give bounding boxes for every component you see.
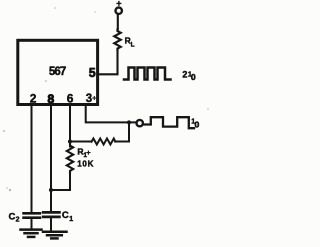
svg-text:6: 6 <box>67 91 74 105</box>
node B junction <box>127 120 131 124</box>
label C1 <box>62 210 73 223</box>
resistor R2 (horizontal, unlabeled) <box>91 139 115 145</box>
wire pin3 to output node <box>86 105 137 122</box>
svg-text:567: 567 <box>49 66 66 78</box>
svg-text:0: 0 <box>191 72 196 82</box>
label f0 <box>191 118 199 129</box>
V+ supply terminal <box>116 8 122 14</box>
svg-text:C: C <box>62 210 69 221</box>
resistor R1 <box>67 142 73 174</box>
svg-text:1: 1 <box>69 216 73 223</box>
wire RL to supply terminal <box>117 14 119 30</box>
ground (C2) <box>21 230 42 237</box>
wire R2 to pin6 node <box>70 141 92 143</box>
svg-text:5: 5 <box>89 66 96 80</box>
wire pin8 to C1 <box>50 105 52 212</box>
capacitor C1 <box>43 212 59 230</box>
svg-text:2: 2 <box>182 69 187 79</box>
output terminal circle <box>137 120 143 126</box>
label R1 <box>77 146 90 159</box>
label C2 <box>9 211 20 223</box>
IC U1 567 tone decoder <box>18 40 98 104</box>
wire R1 bottom to C1 node <box>51 174 70 191</box>
speck after pin 3 <box>93 97 96 100</box>
svg-text:1: 1 <box>83 152 87 159</box>
paper speck <box>9 189 11 191</box>
ground (C1) <box>43 232 67 239</box>
wire pin5 to RL node <box>98 50 118 74</box>
svg-text:8: 8 <box>48 92 55 106</box>
svg-text:10K: 10K <box>77 159 94 168</box>
node junction on pin6 wire <box>68 139 72 143</box>
wire pin6 down <box>69 105 71 147</box>
label 2f0 <box>182 69 196 82</box>
capacitor C2 <box>24 213 40 229</box>
wire pin2 to C2 <box>31 105 33 213</box>
waveform f0 output <box>144 117 194 128</box>
svg-text:L: L <box>131 41 135 48</box>
wire node B down to R2 <box>115 122 129 141</box>
svg-text:C: C <box>9 211 16 222</box>
label RL <box>125 35 135 48</box>
svg-text:0: 0 <box>195 119 200 129</box>
waveform 2f0 output <box>124 68 171 80</box>
svg-text:2: 2 <box>30 91 37 105</box>
resistor RL <box>114 29 120 49</box>
svg-text:2: 2 <box>16 217 20 224</box>
svg-text:3: 3 <box>86 93 92 105</box>
junction on C1 wire <box>49 188 53 192</box>
